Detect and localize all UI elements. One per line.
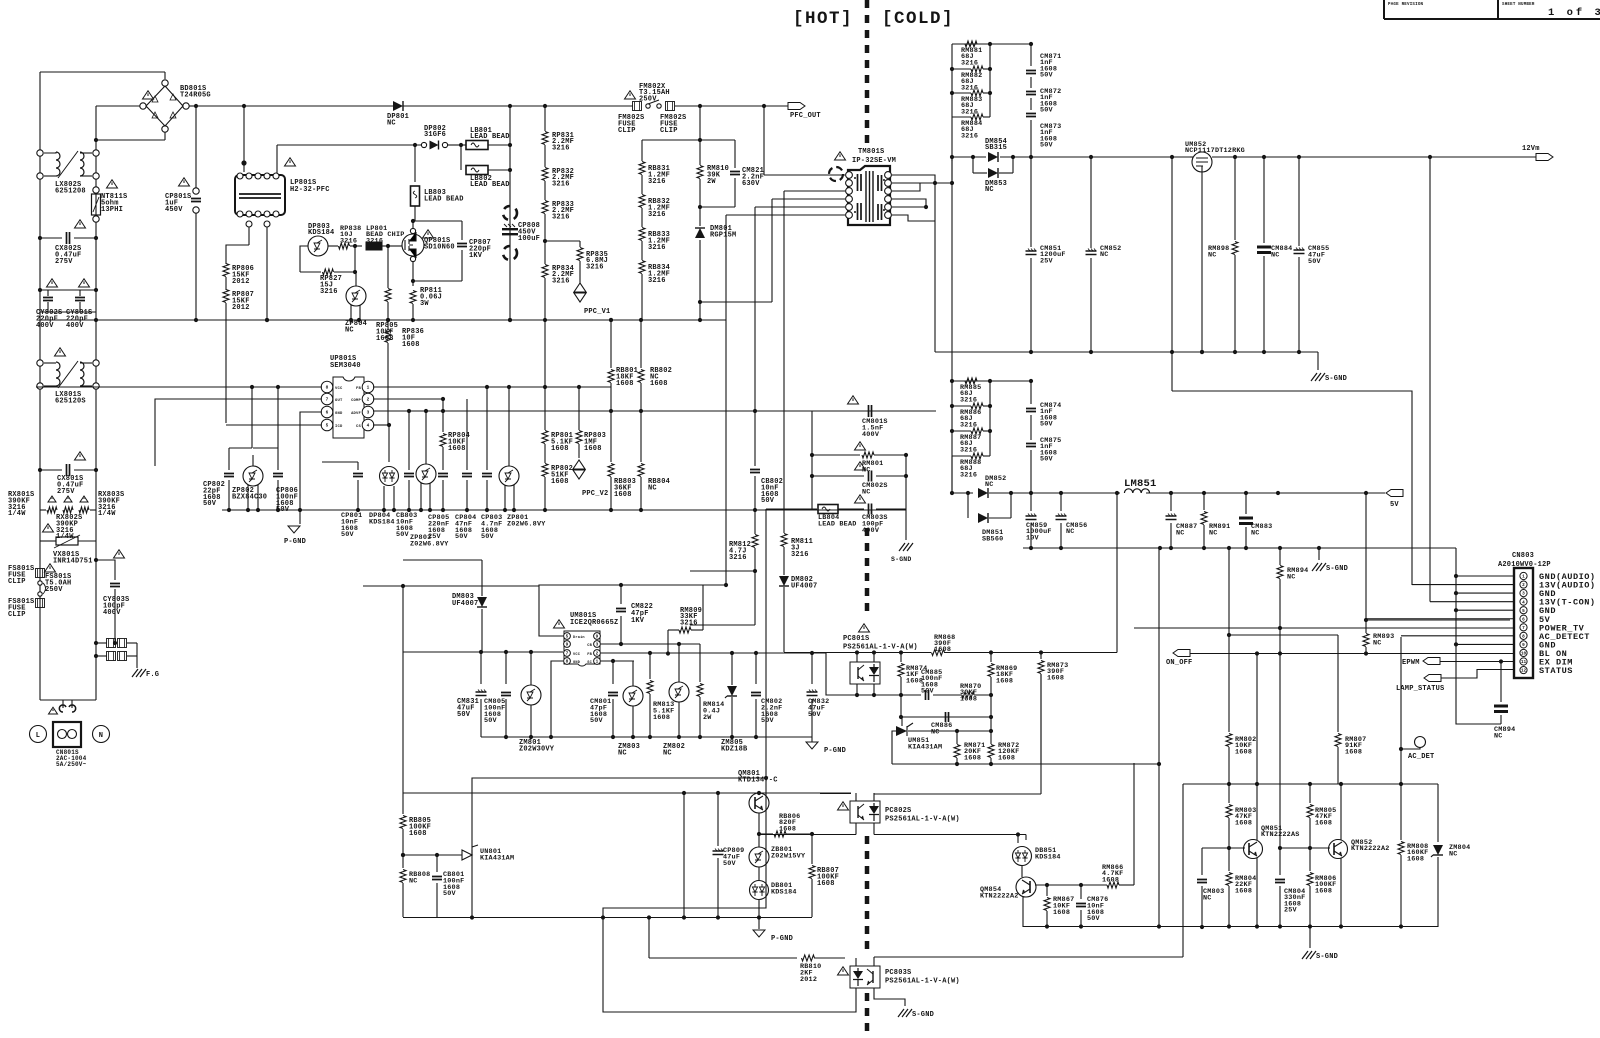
wire primary pin1 from PFC_OUT <box>763 106 765 175</box>
svg-text:KDS184: KDS184 <box>771 888 797 896</box>
wire secondary ground rail 5V <box>1023 547 1456 549</box>
capacitor CP801S <box>195 106 197 188</box>
wire primary small-parts ground rail <box>222 509 906 511</box>
svg-text:SB560: SB560 <box>982 535 1003 543</box>
svg-text:1608: 1608 <box>960 695 977 703</box>
resistor RM804 <box>1228 848 1230 871</box>
wire PC803S status out <box>874 956 1183 958</box>
fuse FS801S with clips <box>36 569 45 578</box>
resistor divider RP801 RP802 <box>544 320 546 430</box>
resistor RM806 <box>1309 848 1311 871</box>
resistor RP835 <box>545 240 580 242</box>
diode DP801 <box>393 101 403 111</box>
wire QM852 collector emitter <box>1340 784 1342 840</box>
transistor QM854 KTN2222A2 <box>1021 866 1023 877</box>
resistor RM866 <box>1107 882 1119 888</box>
svg-text:3216: 3216 <box>586 263 604 271</box>
zener ZM801 <box>521 685 541 705</box>
svg-text:S-GND: S-GND <box>912 1011 934 1019</box>
svg-text:3216: 3216 <box>961 108 978 116</box>
capacitor CP804 <box>466 399 468 470</box>
svg-text:1608: 1608 <box>614 491 632 499</box>
wire left drop x812 <box>811 411 813 509</box>
resistor RP827 <box>300 246 308 272</box>
resistor RP806 <box>223 264 229 277</box>
svg-text:1608: 1608 <box>1315 887 1332 895</box>
svg-text:50V: 50V <box>590 717 604 725</box>
svg-text:NC: NC <box>985 186 994 194</box>
resistor RB802 <box>640 320 642 368</box>
svg-text:NC: NC <box>862 488 871 496</box>
wire GND pin to rail <box>551 661 563 737</box>
svg-text:[COLD]: [COLD] <box>882 9 954 29</box>
wire primary pin6 <box>726 214 845 216</box>
wire POWER_TV to QM852 base <box>1279 628 1281 848</box>
svg-text:25V: 25V <box>428 533 442 541</box>
wire pin5 ICD <box>226 424 322 426</box>
svg-text:LAMP_STATUS: LAMP_STATUS <box>1396 685 1444 693</box>
resistor RM869 <box>990 653 992 663</box>
ground P-GND QM801 <box>758 918 760 930</box>
capacitor CM855 <box>1298 157 1300 246</box>
svg-text:50V: 50V <box>921 688 935 696</box>
wire QM854 collector row <box>1035 884 1107 886</box>
zener ZP803 <box>416 464 436 484</box>
wire drain route <box>539 585 726 636</box>
svg-text:6: 6 <box>326 411 329 416</box>
capacitor CP801 <box>357 462 359 470</box>
resistors RX801S RX802S RX803S <box>40 509 46 511</box>
testpoint AC_DET <box>1415 737 1426 748</box>
svg-text:3216: 3216 <box>729 554 747 562</box>
svg-text:100uF: 100uF <box>518 235 540 243</box>
wire primary pin5 to RM812 <box>755 206 845 208</box>
wire FB drive <box>826 653 850 695</box>
svg-text:2012: 2012 <box>232 304 250 312</box>
resistor RM868 <box>932 650 945 656</box>
svg-text:NC: NC <box>1208 251 1217 259</box>
svg-text:LEAD BEAD: LEAD BEAD <box>470 181 510 189</box>
svg-text:400V: 400V <box>862 527 880 535</box>
resistor chain RP831-RP834 <box>544 106 546 131</box>
wire UM851 gnd row <box>892 731 896 764</box>
diode DM852 <box>951 456 953 493</box>
svg-text:NC: NC <box>1203 894 1212 902</box>
capacitor CP808 <box>509 106 511 320</box>
svg-text:50V: 50V <box>808 711 822 719</box>
svg-text:1608: 1608 <box>402 341 420 349</box>
ground P-GND near UP801S <box>299 510 301 524</box>
capacitor CM885 <box>901 694 921 696</box>
svg-text:CN803: CN803 <box>1512 552 1534 560</box>
svg-text:7: 7 <box>1522 626 1525 631</box>
svg-text:10: 10 <box>1521 652 1527 657</box>
wire pin8 VCC row <box>36 386 322 388</box>
wire pin4 CS <box>373 424 389 426</box>
svg-text:ICE2QR0665Z: ICE2QR0665Z <box>570 619 618 627</box>
svg-text:3216: 3216 <box>791 551 809 559</box>
resistor RP804 <box>442 412 444 432</box>
svg-text:NC: NC <box>648 484 657 492</box>
svg-text:KDS184: KDS184 <box>369 518 395 526</box>
svg-text:1608: 1608 <box>1235 819 1252 827</box>
svg-text:P-GND: P-GND <box>771 935 793 943</box>
svg-text:5A/250V~: 5A/250V~ <box>56 761 87 768</box>
svg-text:ADVF: ADVF <box>351 412 361 416</box>
shunt reg UM851 KIA431AM <box>896 726 907 736</box>
svg-text:N: N <box>99 732 103 740</box>
svg-text:3216: 3216 <box>320 288 338 296</box>
zener ZP801 <box>499 466 519 486</box>
thermistor NT811S <box>93 187 99 193</box>
capacitor CM894 <box>1500 662 1502 703</box>
wire FB row <box>601 652 826 654</box>
svg-text:13PHI: 13PHI <box>101 206 123 214</box>
svg-text:25V: 25V <box>1284 907 1298 915</box>
svg-text:PPC_V2: PPC_V2 <box>582 490 608 498</box>
net flag 12Vm <box>1536 154 1553 161</box>
svg-text:NC: NC <box>345 326 354 334</box>
svg-text:NC: NC <box>1100 251 1109 259</box>
capacitor CP806 <box>277 387 279 470</box>
bridge rectifier BD801S <box>164 72 166 79</box>
svg-text:Z02W30VY: Z02W30VY <box>519 745 555 753</box>
wire BL_ON row with ON_OFF flag <box>1173 650 1190 657</box>
svg-text:NC: NC <box>985 481 994 489</box>
svg-text:1: 1 <box>367 386 370 391</box>
zener ZM804 <box>1437 784 1439 842</box>
svg-text:3216: 3216 <box>340 237 357 245</box>
svg-text:1608: 1608 <box>1235 748 1252 756</box>
svg-text:9: 9 <box>566 643 569 648</box>
wire primary gnd rail bottom <box>403 917 812 919</box>
svg-text:3216: 3216 <box>648 178 666 186</box>
ferrite bead LB803 <box>414 145 416 182</box>
capacitor CM883 <box>1245 493 1247 514</box>
svg-text:H2-32-PFC: H2-32-PFC <box>290 186 330 194</box>
wire UN801 drive loop <box>472 778 766 918</box>
svg-text:1608: 1608 <box>817 880 835 888</box>
svg-text:NC: NC <box>931 728 940 736</box>
svg-text:1KV: 1KV <box>469 252 483 260</box>
svg-text:25V: 25V <box>1040 257 1054 265</box>
wire PFC bottom rail <box>40 319 726 321</box>
svg-text:NC: NC <box>387 119 396 127</box>
svg-text:3216: 3216 <box>552 277 570 285</box>
svg-text:12: 12 <box>1521 669 1527 674</box>
svg-text:250V: 250V <box>639 95 657 103</box>
svg-text:1608: 1608 <box>409 830 427 838</box>
svg-text:50V: 50V <box>761 497 775 505</box>
svg-text:3216: 3216 <box>961 59 978 67</box>
resistor RM801 <box>812 454 860 456</box>
wire STATUS riser <box>1182 784 1184 957</box>
svg-text:400V: 400V <box>66 322 84 330</box>
ground P-GND CM832 <box>806 742 818 749</box>
svg-text:RGP15M: RGP15M <box>710 231 736 239</box>
wire STATUS pin12 <box>1441 670 1514 679</box>
capacitor CB803 <box>408 411 410 470</box>
svg-text:FB: FB <box>587 653 592 657</box>
wire pin3 ADVF long row <box>373 410 936 412</box>
capacitor CP802 <box>228 448 230 470</box>
svg-text:NC: NC <box>663 749 672 757</box>
resistor RP807 <box>223 290 229 303</box>
diode DM803 <box>481 560 483 596</box>
resistor RB807 <box>811 834 813 864</box>
svg-text:3216: 3216 <box>552 180 570 188</box>
capacitor CM801 <box>612 661 614 684</box>
diac DP803 <box>308 236 328 256</box>
svg-text:50V: 50V <box>484 717 498 725</box>
svg-text:275V: 275V <box>57 488 75 496</box>
svg-text:1608: 1608 <box>1407 855 1424 863</box>
wire PC802S secondary side <box>873 823 875 835</box>
ferrite bead LB801 <box>461 144 466 146</box>
svg-text:S-GND: S-GND <box>1325 375 1347 383</box>
svg-text:50V: 50V <box>443 890 457 898</box>
svg-text:50V: 50V <box>761 717 775 725</box>
diode DM854 <box>988 152 998 162</box>
wire PC801S bottom row <box>850 694 901 696</box>
svg-text:COMP: COMP <box>351 399 361 403</box>
varistor VX801S <box>40 540 56 542</box>
svg-text:1608: 1608 <box>1235 887 1252 895</box>
wire primary pin4 to DM801 <box>772 198 845 200</box>
svg-text:SB315: SB315 <box>985 144 1007 152</box>
capacitor CM803 <box>1201 848 1203 875</box>
svg-text:1608: 1608 <box>996 677 1013 685</box>
svg-text:1608: 1608 <box>1315 819 1332 827</box>
zener ZP802 <box>243 466 263 486</box>
resistor RM867 <box>1046 885 1048 896</box>
svg-text:3: 3 <box>1522 592 1525 597</box>
svg-text:275V: 275V <box>55 258 73 266</box>
resistor RM811 and diode DM802 <box>783 191 785 533</box>
svg-text:FB: FB <box>356 387 361 391</box>
bead chip LP801 <box>366 242 382 250</box>
wire 13V audio to pin2 <box>1412 584 1514 586</box>
resistor RM807 <box>1337 635 1339 732</box>
svg-text:P-GND: P-GND <box>284 538 306 546</box>
capacitor CM805 <box>505 652 507 684</box>
resistor chain RB831-RB834 <box>642 139 735 141</box>
net flag 5V <box>1366 492 1385 494</box>
svg-text:STATUS: STATUS <box>1539 666 1573 676</box>
svg-text:400V: 400V <box>103 609 121 617</box>
resistor RM893 <box>1365 620 1367 633</box>
wire ON_OFF drop to QM851 collector <box>1256 654 1258 785</box>
svg-text:5V: 5V <box>1390 501 1399 509</box>
svg-text:400V: 400V <box>862 431 880 439</box>
svg-text:1608: 1608 <box>616 380 634 388</box>
resistor RM870 <box>962 692 974 698</box>
resistor RM898 <box>1234 157 1236 240</box>
svg-text:KIA431AM: KIA431AM <box>480 854 514 862</box>
svg-text:ON_OFF: ON_OFF <box>1166 659 1192 667</box>
svg-text:SC: SC <box>587 661 592 665</box>
svg-text:1608: 1608 <box>1345 748 1362 756</box>
svg-text:3216: 3216 <box>366 237 383 245</box>
svg-text:3216: 3216 <box>680 619 698 627</box>
svg-text:50V: 50V <box>1308 258 1322 266</box>
ground S-GND top <box>1317 352 1319 370</box>
resistor chain RM885-RM888 <box>951 183 953 493</box>
svg-text:2W: 2W <box>707 178 716 186</box>
wire VCC feedback top rail <box>403 792 851 794</box>
capacitor CM856 <box>1060 493 1062 511</box>
svg-text:50V: 50V <box>481 533 495 541</box>
svg-text:2W: 2W <box>703 714 712 722</box>
svg-text:LEAD BEAD: LEAD BEAD <box>470 133 510 141</box>
svg-text:10V: 10V <box>1026 534 1040 542</box>
capacitor CY802S <box>40 289 96 291</box>
svg-text:PC801S: PC801S <box>843 635 869 643</box>
wire pin7 OUT route <box>155 399 322 466</box>
svg-text:3: 3 <box>367 411 370 416</box>
svg-text:450V: 450V <box>165 206 183 214</box>
svg-text:625120S: 625120S <box>55 397 86 405</box>
svg-text:CB: CB <box>587 644 592 648</box>
transistor QM851 <box>1244 840 1263 859</box>
wire secondary pins to rectifiers <box>892 175 935 183</box>
svg-text:1608: 1608 <box>551 478 569 486</box>
resistor RM874 <box>900 653 902 663</box>
optocoupler PC803S <box>838 967 849 975</box>
svg-text:OUT: OUT <box>335 399 343 403</box>
svg-text:50V: 50V <box>1040 72 1054 80</box>
resistor RM891 <box>1203 493 1205 510</box>
wire pin1 FB row <box>373 386 611 388</box>
capacitor CM832 <box>811 653 813 684</box>
capacitor CM852 <box>1090 157 1092 248</box>
wire secondary return <box>934 183 936 352</box>
svg-text:7: 7 <box>326 398 329 403</box>
svg-text:3216: 3216 <box>552 213 570 221</box>
svg-text:KDZ18B: KDZ18B <box>721 745 748 753</box>
resistor RB806 <box>757 832 761 836</box>
svg-text:Z02W15VY: Z02W15VY <box>771 852 806 860</box>
svg-text:11: 11 <box>1521 660 1527 665</box>
svg-text:3216: 3216 <box>648 211 666 219</box>
svg-text:S-GND: S-GND <box>1326 565 1348 573</box>
capacitor CX802S <box>40 237 62 239</box>
diode DM851 SB560 <box>967 493 969 518</box>
capacitor CP805 <box>442 462 444 470</box>
svg-text:NCP1117DT12RKG: NCP1117DT12RKG <box>1185 147 1245 155</box>
wire 5V to CN803 <box>1365 493 1367 620</box>
svg-text:NC: NC <box>1287 573 1296 581</box>
svg-text:SHEET NUMBER: SHEET NUMBER <box>1502 3 1535 7</box>
resistor RB801 <box>610 320 612 368</box>
svg-text:50V: 50V <box>723 860 737 868</box>
zener ZM802 <box>669 682 689 702</box>
capacitor CP809 <box>717 793 719 846</box>
svg-text:[HOT]: [HOT] <box>793 9 853 29</box>
svg-text:VCC: VCC <box>335 387 343 391</box>
regulator UM852 NCP1117DT12RKG <box>1192 152 1212 172</box>
svg-text:PC802S: PC802S <box>885 807 911 815</box>
svg-text:8: 8 <box>326 386 329 391</box>
net flag EPWM <box>1423 658 1440 665</box>
svg-text:50V: 50V <box>396 531 410 539</box>
svg-text:2: 2 <box>596 652 599 657</box>
svg-text:3216: 3216 <box>960 471 977 479</box>
ferrite bead LB802 <box>460 145 462 170</box>
capacitor CM802 <box>755 653 757 684</box>
svg-text:3216: 3216 <box>961 132 978 140</box>
svg-text:9: 9 <box>1522 643 1525 648</box>
optocoupler PC802S <box>838 802 849 810</box>
svg-text:1608: 1608 <box>584 445 602 453</box>
wire VCC row <box>403 651 563 653</box>
svg-text:12Vm: 12Vm <box>1522 145 1540 153</box>
svg-text:50V: 50V <box>203 500 217 508</box>
capacitor CM887 <box>1170 493 1172 511</box>
resistor RM805 <box>1309 784 1311 803</box>
svg-text:PS2561AL-1-V-A(W): PS2561AL-1-V-A(W) <box>843 644 918 652</box>
svg-text:NC: NC <box>1373 639 1382 647</box>
capacitors CM871 CM872 CM873 <box>1030 44 1032 66</box>
svg-text:PAGE REVISION: PAGE REVISION <box>1388 3 1424 7</box>
svg-text:PS2561AL-1-V-A(W): PS2561AL-1-V-A(W) <box>885 816 960 824</box>
wire right drop to sgnd <box>905 455 907 540</box>
svg-text:1608: 1608 <box>934 646 951 654</box>
svg-text:NC: NC <box>1066 528 1075 536</box>
IC UM801S ICE2QR0665Z <box>554 620 565 628</box>
wire SC row <box>601 660 634 662</box>
svg-text:4: 4 <box>367 424 370 429</box>
wire 12V rectifier rail <box>952 156 986 158</box>
svg-text:50V: 50V <box>1040 142 1054 150</box>
capacitor CP803 <box>486 387 488 470</box>
svg-text:GND: GND <box>335 412 343 416</box>
capacitor CM801S <box>869 405 872 417</box>
wire 13V tcon to pin4 <box>1429 352 1431 602</box>
svg-text:1 of 3: 1 of 3 <box>1548 7 1600 19</box>
diode DP802 <box>421 142 426 147</box>
svg-text:2012: 2012 <box>800 976 817 984</box>
fuse FM802S <box>633 102 642 111</box>
capacitor CB801 <box>436 855 438 872</box>
svg-text:TM801S: TM801S <box>858 148 884 156</box>
svg-text:GND: GND <box>573 661 581 665</box>
wire left vertical N line <box>95 106 97 700</box>
svg-text:1608: 1608 <box>1053 909 1070 917</box>
dual diode DB801 <box>750 881 769 900</box>
resistor RM802 <box>1228 548 1230 732</box>
svg-text:KTN2222A2: KTN2222A2 <box>1351 845 1390 853</box>
svg-text:2012: 2012 <box>232 278 250 286</box>
svg-text:CS: CS <box>356 425 361 429</box>
svg-text:INR14D751: INR14D751 <box>53 557 93 565</box>
svg-text:5: 5 <box>1522 609 1525 614</box>
transistor QM852 <box>1329 840 1348 859</box>
resistor RM871 <box>956 731 958 744</box>
svg-text:BZX84C30: BZX84C30 <box>232 493 267 501</box>
capacitor CM831 <box>480 652 482 684</box>
resistor RM809 <box>667 630 669 654</box>
svg-text:5: 5 <box>566 635 569 640</box>
svg-text:630V: 630V <box>742 180 760 188</box>
svg-text:LM851: LM851 <box>1124 478 1157 490</box>
svg-text:1608: 1608 <box>1047 674 1064 682</box>
svg-text:6251208: 6251208 <box>55 187 86 195</box>
svg-text:9: 9 <box>596 635 599 640</box>
svg-text:2: 2 <box>367 398 370 403</box>
wire 5V raw rail <box>1011 492 1120 494</box>
resistor RM803 <box>1228 784 1230 803</box>
